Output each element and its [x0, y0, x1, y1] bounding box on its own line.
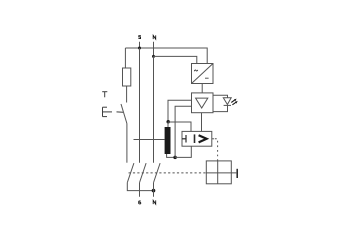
- rectifier diagonal: [192, 64, 214, 84]
- terminal label 6: [139, 201, 141, 204]
- wire phase vertical: [139, 48, 141, 163]
- rectifier U1 box: [192, 64, 214, 84]
- main contact phase blade: [140, 163, 147, 183]
- rectifier AC mark: [194, 70, 197, 71]
- wire neutral bottom terminal: [153, 183, 155, 197]
- pushbutton actuator E: [103, 107, 124, 116]
- wire toroid bottom stub: [167, 154, 176, 157]
- wire resistor to test contact: [126, 86, 128, 103]
- dashed trip linkage horizontal: [129, 172, 207, 174]
- main contact neutral blade: [154, 163, 161, 183]
- wire toroid secondary upper to amplifier: [168, 100, 192, 122]
- test aux contact blade: [127, 163, 134, 183]
- wire phase bottom terminal: [139, 183, 141, 197]
- wire phase top stub: [139, 42, 141, 48]
- wire LED loop top: [213, 95, 228, 98]
- dashed link detector to mechanism: [215, 139, 218, 161]
- current transformer W1 core bar: [165, 127, 171, 154]
- level detector I bar: [194, 134, 196, 143]
- wire toroid secondary lower to amplifier: [175, 106, 191, 157]
- wire amplifier to detector: [201, 113, 203, 132]
- wire test bottom L to neutral: [127, 183, 153, 191]
- manual handle bar: [236, 169, 238, 178]
- trip mechanism box: [206, 161, 231, 184]
- resistor R test: [123, 68, 131, 86]
- wire toroid top stub: [167, 122, 169, 127]
- current transformer flux line: [134, 139, 165, 141]
- wire neutral vertical: [153, 56, 155, 162]
- node junction phase top: [138, 47, 141, 50]
- terminal label N bottom: [153, 200, 156, 204]
- trip mechanism cross vertical: [217, 161, 219, 184]
- LED arrows: [231, 99, 237, 105]
- wire test branch lower: [126, 124, 128, 163]
- amplifier triangle: [196, 98, 208, 108]
- level detector U3 box: [182, 131, 212, 146]
- wire neutral top stub: [153, 42, 155, 57]
- node junction neutral top: [152, 55, 155, 58]
- wire detector output stub: [212, 138, 214, 140]
- node toroid bottom: [173, 156, 177, 160]
- level detector greater-than: [199, 135, 207, 142]
- wire rectifier to amplifier: [201, 84, 203, 93]
- wire toroid top to detector: [168, 122, 191, 131]
- wire LED loop bottom: [213, 105, 228, 111]
- rectifier DC mark: [205, 77, 209, 79]
- test button contact blade: [121, 104, 127, 124]
- amplifier U2 box: [192, 93, 214, 113]
- LED D1: [223, 98, 231, 106]
- node toroid top: [166, 120, 170, 124]
- wire top horizontal L to rectifier: [125, 48, 207, 64]
- wire test branch upper: [124, 48, 126, 68]
- wire neutral horizontal to rectifier: [154, 56, 197, 63]
- label T test: [102, 92, 107, 98]
- terminal label N top: [153, 35, 156, 39]
- terminal label 5: [138, 36, 141, 39]
- wire toroid bottom to detector: [175, 146, 191, 157]
- node bottom neutral: [152, 189, 156, 193]
- trip mechanism cross horizontal: [206, 172, 236, 174]
- level detector input stub: [182, 135, 186, 143]
